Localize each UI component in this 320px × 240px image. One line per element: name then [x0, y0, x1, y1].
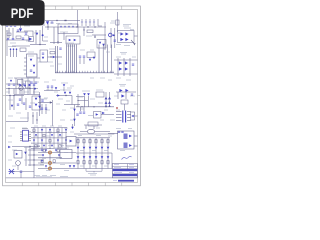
- wire badge drop left: [42, 26, 48, 42]
- transformer T2: [116, 111, 131, 123]
- svg-text:PDF: PDF: [11, 5, 34, 21]
- component V: [101, 112, 114, 115]
- component Y: [71, 124, 74, 129]
- jumper ring J2: [49, 151, 52, 154]
- clip mark: [98, 19, 102, 26]
- resistor R10: [87, 52, 95, 61]
- box output: [118, 131, 135, 149]
- comb leds: [77, 156, 110, 159]
- wire link bottom: [11, 171, 34, 173]
- wire long riser: [52, 100, 54, 126]
- fuse F1: [9, 169, 15, 174]
- comb resistors 2: [77, 161, 109, 164]
- wire under IC: [14, 78, 40, 95]
- bus vertical link: [49, 153, 51, 169]
- grid columns: [34, 128, 66, 149]
- capacitor C12: [11, 99, 25, 107]
- box U: [94, 112, 102, 119]
- resistor R3: [86, 30, 93, 36]
- wire comb right: [110, 134, 114, 169]
- box top TP3: [121, 100, 128, 111]
- comb bus B: [76, 137, 110, 139]
- title text c: [113, 172, 134, 180]
- wire riser x77: [77, 10, 79, 27]
- diode stack S: [105, 92, 111, 107]
- wire pin header bus: [55, 71, 114, 73]
- wire top bus B: [45, 26, 106, 27]
- comb diodes: [77, 147, 110, 150]
- wire arrow net: [38, 99, 52, 104]
- wire bottom link: [50, 42, 62, 44]
- wire riser column: [26, 147, 34, 178]
- comb columns: [78, 138, 108, 153]
- capacitor C9 C10: [79, 56, 85, 64]
- resistor R12: [61, 83, 72, 91]
- resistor R8: [49, 49, 55, 54]
- revision strip line: [6, 177, 138, 179]
- comb top oval: [80, 129, 110, 133]
- diode D1: [46, 21, 53, 24]
- comb bracket: [86, 169, 102, 173]
- box audio out: [66, 137, 76, 147]
- transformer T1 primary: [56, 46, 62, 73]
- title block frame: [112, 164, 137, 178]
- box R: [96, 90, 104, 97]
- title text b: [114, 166, 134, 168]
- regulator bank: [32, 96, 41, 110]
- bus components 2: [41, 150, 75, 168]
- diode D7: [19, 84, 22, 94]
- wire M risers: [41, 104, 47, 114]
- box main amp: [60, 148, 72, 159]
- wire bus mid: [76, 106, 114, 107]
- wire to border: [134, 35, 138, 37]
- title row lines: [112, 166, 137, 174]
- wire vertical pair: [54, 27, 59, 44]
- capacitor C2: [25, 33, 27, 34]
- optocoupler U3: [14, 151, 27, 159]
- grid bus rows: [31, 128, 67, 149]
- capacitor CX: [20, 171, 22, 178]
- IC U2 audio: [20, 129, 31, 142]
- border zone ticks: [3, 6, 141, 186]
- wire net W: [84, 122, 102, 129]
- transformer T1 core: [66, 43, 77, 73]
- box filter FL1: [66, 36, 80, 46]
- bus row 1: [38, 152, 76, 154]
- wire mid net: [56, 94, 80, 104]
- wire net L2: [6, 112, 29, 122]
- wire out pair: [134, 136, 138, 146]
- title bar 1: [113, 169, 138, 171]
- grid cells: [33, 129, 67, 147]
- comb resistors: [77, 140, 109, 143]
- wire top right riser: [116, 12, 119, 32]
- wire bus C: [92, 35, 106, 38]
- doc number bar: [118, 180, 134, 182]
- comb bus C: [76, 152, 112, 154]
- wire corner: [24, 31, 33, 36]
- title bar 2: [113, 174, 138, 176]
- grid junction dots: [33, 148, 66, 149]
- box PWM: [18, 80, 24, 91]
- capacitor C1 row: [6, 22, 16, 26]
- jumper ring J4: [49, 167, 52, 170]
- bus row 2: [38, 157, 62, 159]
- text label TP1: [120, 53, 127, 55]
- wire top bus A: [45, 20, 80, 21]
- thermistor RT1: [16, 161, 21, 170]
- wire feed: [108, 132, 124, 134]
- title text a: [114, 164, 134, 166]
- wire vcc right: [110, 23, 116, 48]
- connector J1: [8, 47, 17, 58]
- resistor R5: [20, 48, 26, 51]
- capacitor row top: [81, 19, 95, 26]
- wire stubs: [32, 112, 37, 124]
- wire riser pair: [30, 30, 46, 45]
- box clamp: [118, 31, 135, 43]
- box aux: [40, 50, 48, 62]
- wire mid verticals: [64, 27, 85, 40]
- capacitor C6 C7: [8, 84, 15, 94]
- regulator blue 2: [124, 143, 132, 149]
- rectifier bank DB1: [114, 58, 138, 76]
- transistor Q2: [105, 22, 112, 50]
- transistor Q1: [29, 37, 34, 42]
- comb bus A: [74, 133, 110, 135]
- resistor network RN1: [58, 24, 78, 34]
- text label TP2: [119, 85, 126, 87]
- arrow mark: [131, 40, 136, 45]
- label texture: [6, 21, 138, 171]
- wire net row: [6, 88, 38, 89]
- strip text 2: [60, 176, 68, 178]
- sheet inner border: [6, 10, 138, 183]
- wire net L1: [6, 95, 24, 96]
- wire secondary risers: [99, 45, 112, 73]
- capacitor C14 group: [44, 86, 60, 91]
- label power led: [88, 174, 97, 176]
- bus row 4: [38, 168, 76, 170]
- component stack P: [73, 105, 78, 127]
- wire to border R: [135, 115, 138, 117]
- box snubber: [97, 40, 106, 49]
- component X: [131, 112, 135, 120]
- comb columns 2: [78, 153, 108, 169]
- filler components: [6, 20, 89, 107]
- wire net Qx: [76, 94, 88, 107]
- node dot red: [116, 107, 118, 109]
- diode D4: [113, 34, 115, 36]
- text label TR: [123, 25, 131, 29]
- comb bus D: [76, 168, 112, 170]
- sheet outer border: [3, 6, 141, 186]
- capacitor bank T: [79, 107, 85, 113]
- wire mid link: [48, 56, 63, 59]
- component stack M: [38, 92, 43, 116]
- component N: [63, 90, 71, 94]
- PDF badge: [0, 0, 45, 26]
- transistor Q3: [24, 81, 31, 94]
- logo signature: [122, 156, 132, 159]
- IC U1: [24, 54, 37, 77]
- rectifier bank DB2: [116, 89, 136, 99]
- bus row 3: [38, 162, 76, 164]
- wire feed row: [8, 146, 40, 149]
- regulator blue 1: [124, 134, 132, 140]
- wire drop from badge: [47, 21, 49, 31]
- jumper ring J3: [49, 162, 52, 165]
- cluster Q: [82, 91, 90, 107]
- wire left rows: [6, 28, 30, 40]
- wire rung rows: [28, 149, 44, 165]
- box VR: [26, 81, 38, 88]
- diode D2: [19, 24, 22, 32]
- bus components 1: [41, 149, 60, 156]
- title divider vertical: [127, 164, 129, 172]
- wire risers L: [10, 96, 26, 111]
- diode D5: [120, 32, 128, 41]
- strip text 1: [34, 176, 56, 177]
